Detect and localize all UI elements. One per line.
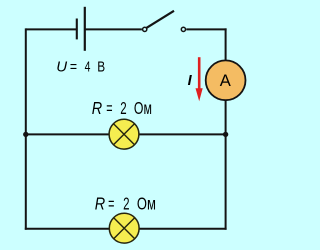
svg-text:Ом: Ом [134,98,152,118]
svg-text:=: = [70,59,77,76]
wire left side [25,28,27,229]
ammeter A [206,60,246,100]
wire right side [225,28,227,229]
label U = 4 V [56,59,105,76]
svg-text:Ом: Ом [137,194,156,214]
battery U [77,7,85,51]
svg-text:4: 4 [85,59,91,76]
wire bottom branch [25,228,227,230]
wire top-left segment [26,28,77,30]
svg-text:R: R [92,98,103,118]
svg-text:2: 2 [123,194,129,214]
label R2 value [95,194,156,214]
switch S [143,11,186,32]
svg-text:A: A [220,71,232,90]
svg-text:I: I [188,73,193,89]
label R1 value [92,98,152,118]
wire battery-to-switch segment [85,28,142,30]
current arrow I [196,57,203,101]
svg-text:U: U [56,59,67,76]
lamp R1 [109,119,139,149]
svg-text:=: = [106,98,112,118]
lamp R2 [109,213,139,243]
svg-text:2: 2 [120,98,126,118]
svg-text:В: В [97,59,105,76]
svg-text:R: R [95,194,106,214]
node left junction [23,132,28,137]
node right junction [223,132,228,137]
wire middle branch [26,133,226,135]
svg-text:=: = [108,194,114,214]
wire switch-to-corner segment [186,28,226,30]
